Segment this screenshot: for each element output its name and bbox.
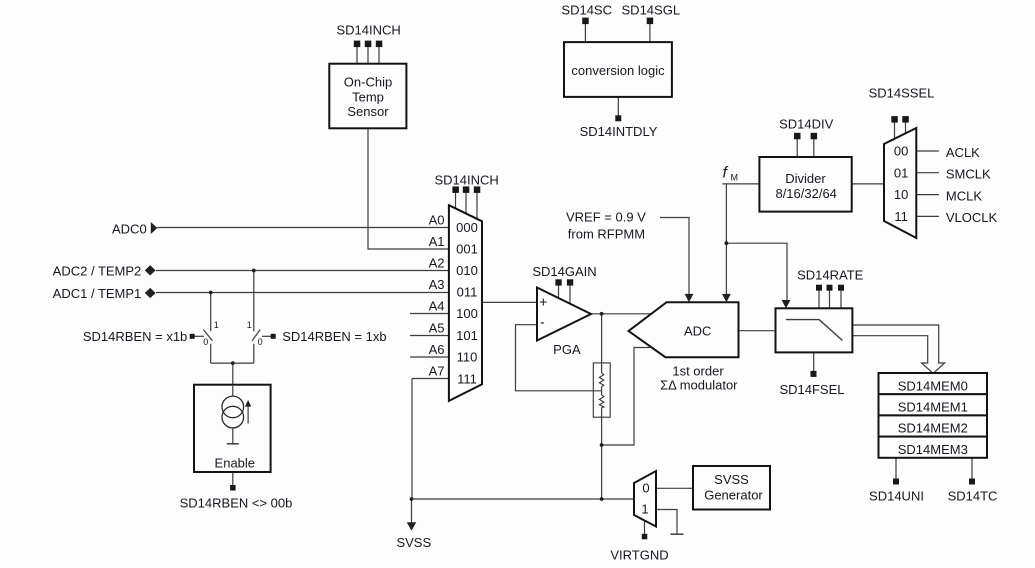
svg-text:SVSS: SVSS (714, 472, 749, 487)
svg-text:SD14GAIN: SD14GAIN (532, 264, 596, 279)
svg-text:10: 10 (894, 187, 908, 202)
svg-text:SD14SGL: SD14SGL (622, 2, 681, 17)
svg-text:SD14INTDLY: SD14INTDLY (580, 124, 658, 139)
svg-text:On-Chip: On-Chip (344, 75, 392, 90)
svg-text:SD14RBEN = x1b: SD14RBEN = x1b (83, 329, 187, 344)
svg-text:SD14MEM0: SD14MEM0 (898, 378, 968, 393)
svg-text:SD14TC: SD14TC (948, 489, 998, 504)
svg-text:SD14RBEN = 1xb: SD14RBEN = 1xb (282, 329, 386, 344)
svg-text:SVSS: SVSS (396, 535, 431, 550)
svg-text:SD14DIV: SD14DIV (779, 117, 834, 132)
svg-text:11: 11 (894, 209, 908, 224)
svg-text:ACLK: ACLK (946, 145, 980, 160)
svg-text:SMCLK: SMCLK (946, 167, 991, 182)
svg-text:SD14RATE: SD14RATE (797, 268, 864, 283)
svg-text:010: 010 (456, 263, 478, 278)
svg-text:Temp: Temp (352, 90, 384, 105)
svg-text:ADC2 / TEMP2: ADC2 / TEMP2 (53, 264, 142, 279)
svg-text:01: 01 (894, 165, 908, 180)
svg-text:M: M (731, 173, 739, 183)
svg-text:Divider: Divider (785, 171, 826, 186)
svg-text:PGA: PGA (553, 342, 581, 357)
svg-text:SD14SSEL: SD14SSEL (869, 86, 935, 101)
svg-text:A2: A2 (429, 256, 445, 271)
svg-text:0: 0 (258, 337, 263, 347)
svg-text:A5: A5 (429, 321, 445, 336)
svg-text:SD14MEM1: SD14MEM1 (898, 400, 968, 415)
svg-text:SD14MEM3: SD14MEM3 (898, 442, 968, 457)
svg-text:+: + (539, 294, 547, 310)
svg-text:A7: A7 (429, 364, 445, 379)
svg-text:VIRTGND: VIRTGND (610, 548, 668, 563)
svg-text:110: 110 (457, 350, 478, 365)
svg-text:0: 0 (642, 480, 649, 495)
svg-text:111: 111 (457, 372, 477, 387)
svg-text:ADC: ADC (684, 323, 711, 338)
svg-text:Sensor: Sensor (347, 104, 389, 119)
svg-text:1: 1 (214, 320, 219, 330)
svg-text:VLOCLK: VLOCLK (946, 210, 998, 225)
svg-text:conversion logic: conversion logic (571, 63, 665, 78)
svg-text:1: 1 (641, 502, 648, 517)
svg-text:011: 011 (457, 285, 478, 300)
svg-text:100: 100 (456, 306, 478, 321)
svg-text:1: 1 (247, 320, 252, 330)
svg-text:00: 00 (894, 143, 908, 158)
svg-text:VREF = 0.9 V: VREF = 0.9 V (566, 210, 646, 225)
svg-text:SD14RBEN <> 00b: SD14RBEN <> 00b (180, 496, 293, 511)
svg-text:Generator: Generator (704, 488, 763, 503)
svg-text:SD14MEM2: SD14MEM2 (898, 421, 968, 436)
svg-text:ADC1 / TEMP1: ADC1 / TEMP1 (53, 286, 142, 301)
svg-text:A4: A4 (429, 299, 445, 314)
svg-text:SD14SC: SD14SC (561, 2, 612, 17)
svg-text:001: 001 (456, 242, 478, 257)
svg-text:101: 101 (456, 328, 478, 343)
svg-text:A3: A3 (429, 277, 445, 292)
svg-text:ADC0: ADC0 (112, 222, 147, 237)
svg-text:000: 000 (456, 220, 478, 235)
svg-text:0: 0 (203, 337, 208, 347)
svg-text:MCLK: MCLK (946, 188, 982, 203)
svg-text:Enable: Enable (215, 456, 255, 471)
svg-text:SD14INCH: SD14INCH (434, 172, 498, 187)
svg-text:from RFPMM: from RFPMM (568, 227, 645, 242)
svg-text:A0: A0 (429, 213, 445, 228)
svg-text:SD14INCH: SD14INCH (336, 23, 400, 38)
svg-text:f: f (723, 164, 729, 181)
svg-text:A6: A6 (429, 342, 445, 357)
svg-text:8/16/32/64: 8/16/32/64 (775, 186, 836, 201)
svg-text:SD14UNI: SD14UNI (869, 489, 924, 504)
svg-text:ΣΔ modulator: ΣΔ modulator (660, 378, 738, 393)
svg-text:1st order: 1st order (672, 364, 724, 379)
svg-text:A1: A1 (429, 234, 445, 249)
svg-text:-: - (540, 313, 545, 329)
svg-text:SD14FSEL: SD14FSEL (779, 382, 844, 397)
